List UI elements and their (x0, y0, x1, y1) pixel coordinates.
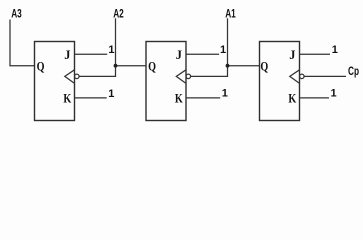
wire junction down to clock of U2 (190, 66, 227, 77)
U1 clock bubble (75, 74, 80, 79)
U1 clock wedge (65, 70, 75, 84)
JK flip-flop U3 body (260, 42, 300, 121)
wire A3 to Q of U1 (10, 20, 35, 66)
svg-text:1: 1 (108, 88, 114, 100)
wire U2 K stub (186, 97, 220, 99)
wire U1 J stub (75, 53, 108, 55)
svg-text:Q: Q (148, 60, 156, 74)
svg-text:J: J (289, 48, 295, 62)
svg-text:A1: A1 (225, 8, 236, 21)
U2 clock wedge (176, 70, 186, 84)
svg-text:Q: Q (37, 60, 45, 74)
junction dot A1 (226, 64, 230, 68)
U3 clock bubble (300, 74, 305, 79)
wire U3 J stub (300, 53, 331, 55)
svg-text:K: K (175, 91, 183, 105)
wire A2 vertical (115, 18, 117, 65)
svg-text:1: 1 (108, 44, 114, 56)
svg-text:Cp: Cp (348, 66, 359, 79)
svg-text:1: 1 (331, 87, 337, 99)
wire Q of U2 to junction (116, 65, 147, 67)
svg-text:Q: Q (260, 60, 268, 74)
wire Q of U3 to junction (228, 65, 260, 67)
U2 clock bubble (186, 74, 191, 79)
svg-text:K: K (63, 91, 71, 105)
JK flip-flop U1 body (35, 42, 75, 121)
svg-text:1: 1 (220, 44, 226, 56)
wire U2 J stub (186, 53, 219, 55)
svg-text:J: J (176, 48, 182, 62)
svg-text:K: K (288, 91, 296, 105)
U3 clock wedge (290, 70, 300, 84)
wire Cp clock input (304, 75, 346, 77)
svg-text:J: J (64, 48, 70, 62)
junction dot A2 (114, 64, 118, 68)
svg-text:A2: A2 (113, 8, 124, 21)
svg-text:1: 1 (332, 44, 338, 56)
wire U3 K stub (300, 97, 330, 99)
JK flip-flop U2 body (146, 42, 186, 121)
wire junction down to clock of U1 (79, 66, 116, 77)
svg-text:A3: A3 (11, 8, 22, 21)
wire U1 K stub (75, 97, 107, 99)
svg-text:1: 1 (222, 87, 228, 99)
wire A1 vertical (227, 18, 229, 65)
